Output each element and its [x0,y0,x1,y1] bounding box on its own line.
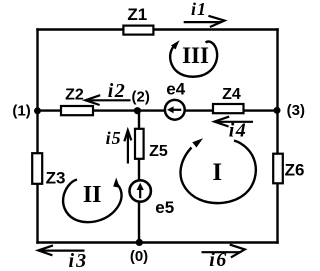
node 0 junction dot [136,239,143,246]
svg-text:II: II [83,182,102,208]
svg-text:(1): (1) [12,103,30,120]
svg-text:Z2: Z2 [65,87,84,104]
svg-text:Z1: Z1 [127,5,147,24]
mesh loop I arrow (clockwise circular arrow) [180,138,255,203]
source e4 (current source, arrow pointing left) [165,100,185,120]
svg-text:e5: e5 [155,198,174,217]
current arrow i4 (points left) [214,117,253,127]
svg-text:Z5: Z5 [149,143,168,160]
node 1 junction dot [34,107,41,114]
resistor Z1 [123,26,153,35]
resistor Z6 [273,154,283,184]
current arrow i5 (points up) [124,130,131,163]
wire center branch node2 to node0 [138,111,140,243]
svg-text:Z3: Z3 [46,169,66,188]
svg-text:e4: e4 [166,80,185,99]
wire top rail [36,28,278,30]
svg-text:i4: i4 [229,120,248,142]
svg-text:i1: i1 [191,0,207,19]
svg-text:(3): (3) [287,102,305,119]
resistor Z4 [213,104,244,113]
mesh loop III arrow (clockwise circular arrow) [170,40,217,77]
svg-text:i5: i5 [106,128,122,148]
svg-text:(2): (2) [132,89,150,106]
wire right rail node3 branch [276,28,278,243]
current arrow i6 (points right) [202,245,245,258]
svg-text:III: III [182,43,209,68]
svg-text:I: I [212,159,222,186]
mesh loop II arrow (counterclockwise circular arrow) [63,178,122,223]
current arrow i2 (points left) [85,95,130,105]
svg-text:i2: i2 [108,80,127,102]
svg-text:(0): (0) [130,248,148,265]
svg-text:Z4: Z4 [222,86,241,103]
svg-text:i6: i6 [209,249,228,271]
current arrow i1 (points right) [184,16,225,27]
node 2 junction dot [134,107,141,114]
svg-text:i3: i3 [69,250,89,271]
resistor Z2 [61,106,93,115]
current arrow i3 (points left) [38,245,84,255]
resistor Z5 [135,129,144,159]
source e5 (current source, arrow pointing up) [130,180,151,201]
node 3 junction dot [274,107,281,114]
resistor Z3 [32,153,42,184]
wire left rail node1 branch [36,28,38,243]
svg-text:Z6: Z6 [285,160,305,179]
wire middle rail node1 to node3 [38,109,278,111]
wire bottom rail [36,241,278,243]
